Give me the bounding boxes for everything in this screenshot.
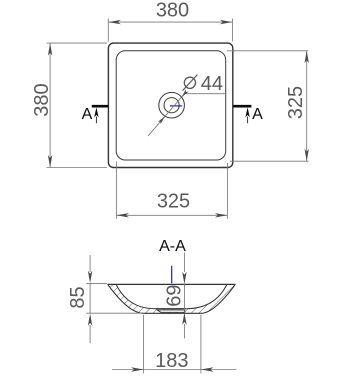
svg-text:183: 183 bbox=[155, 350, 188, 372]
dim 183: right arrowhead (points left) bbox=[201, 367, 214, 371]
leader lower arrowhead on circle bbox=[158, 116, 165, 124]
drain inner circle d44 bbox=[164, 98, 179, 113]
dim 380 top: extension line right bbox=[231, 19, 233, 42]
section cut left arrow tail bbox=[95, 117, 97, 124]
leader line horizontal landing of d44 bbox=[185, 93, 227, 95]
dim 183: dimension line with tails bbox=[112, 369, 236, 371]
rim top line bbox=[108, 283, 236, 285]
diameter symbol circle bbox=[184, 77, 195, 88]
dim 85: lower arrowhead (up) bbox=[88, 313, 92, 326]
outer profile right curve bbox=[201, 284, 235, 313]
blue centerline mark of drain bbox=[170, 105, 182, 107]
outer square (basin outer rim 380x380) bbox=[108, 43, 232, 167]
drain outer circle bbox=[159, 92, 185, 118]
section cut thick line right bbox=[233, 105, 251, 108]
dim 85: upper tail bbox=[89, 255, 91, 272]
dim 69: middle segment bbox=[183, 284, 185, 312]
section cut right arrow bbox=[245, 107, 249, 117]
svg-text:44: 44 bbox=[201, 73, 223, 95]
dim 69: upper arrowhead (down) bbox=[182, 272, 186, 285]
dim 69: upper tail bbox=[183, 253, 185, 272]
dim 325 right: bottom arrowhead bbox=[305, 149, 309, 162]
dim 325 right: dimension line bbox=[306, 51, 308, 161]
outer profile left curve bbox=[108, 284, 144, 313]
dim 325 bottom: extension line left bbox=[115, 162, 117, 219]
dim 380 left: extension line top bbox=[47, 42, 108, 44]
svg-text:A: A bbox=[252, 106, 263, 123]
dim 85: extension line top bbox=[86, 282, 107, 284]
dim 380 left: dimension line bbox=[49, 43, 51, 167]
dim 325 bottom: right arrowhead bbox=[215, 213, 228, 217]
inner square (basin inner bowl 325x325) bbox=[116, 51, 226, 160]
dim 380 left: bottom arrowhead bbox=[48, 155, 52, 168]
blue vertical centerline bbox=[171, 266, 173, 283]
section cut thick line left bbox=[92, 105, 109, 108]
interior bottom line bbox=[155, 308, 186, 310]
dim 85: middle segment bbox=[89, 283, 91, 313]
svg-text:A: A bbox=[82, 106, 93, 123]
dim 183: extension line left bbox=[143, 315, 145, 374]
dim 380 top: left arrowhead bbox=[108, 20, 121, 24]
dim 325 bottom: extension line right bbox=[226, 163, 228, 219]
section cut left arrow bbox=[94, 107, 98, 117]
svg-text:69: 69 bbox=[164, 284, 186, 306]
dim 183: extension line right bbox=[200, 315, 202, 374]
dim 380 top: dimension line bbox=[108, 21, 232, 23]
drain recess trapezoid bbox=[157, 310, 185, 312]
dim 380 top: right arrowhead bbox=[220, 20, 233, 24]
svg-text:A-A: A-A bbox=[159, 238, 186, 255]
svg-text:380: 380 bbox=[156, 0, 189, 22]
inner bowl right curve bbox=[186, 284, 227, 308]
section cut right arrow tail bbox=[247, 117, 249, 124]
dim 183: left arrowhead (points right) bbox=[131, 367, 144, 371]
dim 85: upper arrowhead (down) bbox=[88, 271, 92, 284]
inner bowl left curve bbox=[116, 284, 155, 308]
diameter symbol slash bbox=[183, 75, 198, 91]
svg-text:325: 325 bbox=[285, 86, 307, 119]
dim 325 bottom: dimension line bbox=[116, 214, 227, 216]
svg-text:325: 325 bbox=[157, 191, 190, 213]
dim 380 left: extension line bottom bbox=[47, 167, 108, 169]
hatched wall cross-section band bbox=[108, 284, 236, 313]
dim 325 right: extension line bottom bbox=[230, 160, 309, 162]
dim 325 bottom: left arrowhead bbox=[116, 213, 128, 217]
dim 85: lower tail bbox=[89, 325, 91, 343]
svg-text:380: 380 bbox=[31, 83, 53, 116]
dim 69: lower tail bbox=[183, 324, 185, 339]
dim 325 right: extension line top bbox=[227, 50, 309, 52]
dim 380 top: extension line left bbox=[107, 19, 109, 42]
dim 85: extension line bottom bbox=[86, 312, 143, 314]
dim 325 right: top arrowhead bbox=[305, 51, 309, 64]
svg-text:85: 85 bbox=[67, 286, 89, 308]
dim 380 left: top arrowhead bbox=[48, 43, 52, 56]
leader upper arrowhead on circle bbox=[182, 89, 189, 97]
dim 69: lower arrowhead (up) bbox=[182, 312, 186, 325]
outer profile flat bottom bbox=[144, 312, 201, 314]
leader line diagonal of d44 bbox=[148, 94, 185, 136]
